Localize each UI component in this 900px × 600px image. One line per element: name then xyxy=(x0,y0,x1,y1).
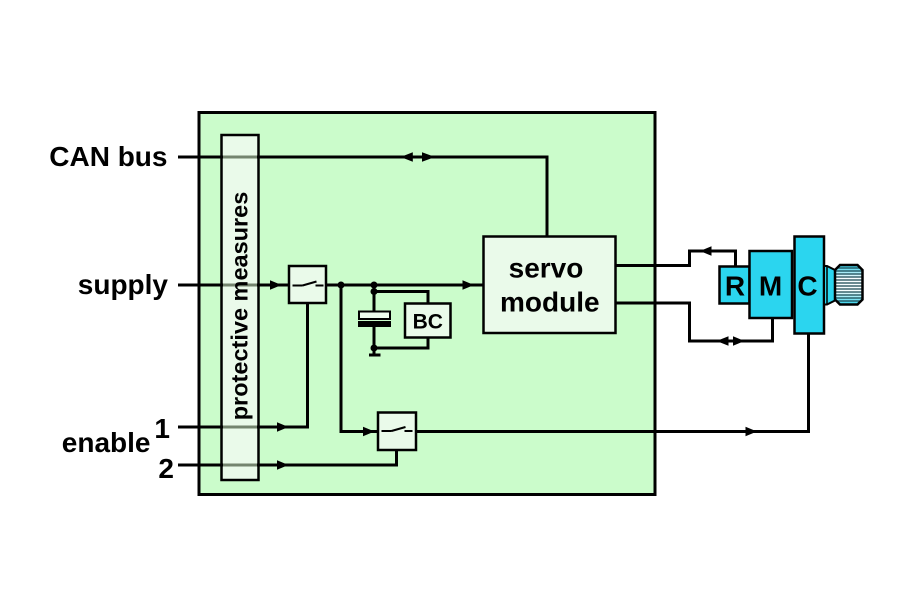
svg-text:servo: servo xyxy=(509,253,584,284)
svg-text:R: R xyxy=(725,271,745,302)
svg-text:C: C xyxy=(797,271,817,302)
svg-text:module: module xyxy=(500,287,600,318)
svg-text:protective measures: protective measures xyxy=(227,192,253,421)
svg-text:BC: BC xyxy=(413,311,443,334)
svg-text:CAN bus: CAN bus xyxy=(49,141,167,172)
svg-text:M: M xyxy=(759,271,782,302)
svg-text:1: 1 xyxy=(154,413,170,444)
svg-text:supply: supply xyxy=(78,269,169,300)
svg-text:enable: enable xyxy=(62,427,151,458)
svg-text:2: 2 xyxy=(158,453,174,484)
